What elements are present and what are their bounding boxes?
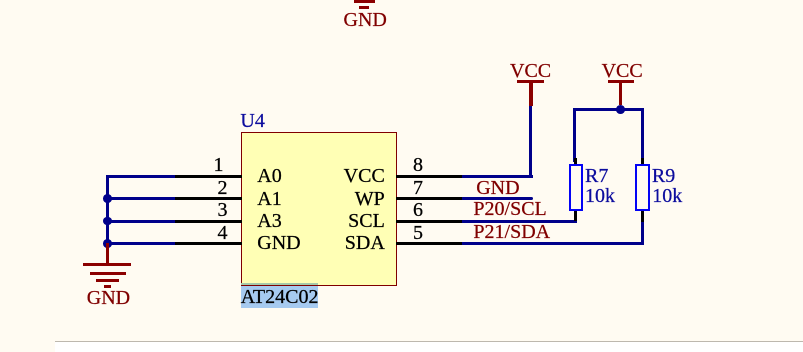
- pin name A1: [257, 189, 281, 209]
- pin 5 line: [396, 242, 464, 245]
- pin 1 line: [174, 175, 242, 178]
- pin number 7: [412, 178, 425, 198]
- pin 3 (A3): [0, 0, 1, 1]
- wire pin4 row: [106, 242, 175, 245]
- resistor R9: [0, 0, 1, 1]
- net label P20/SCL: [473, 199, 546, 219]
- pin 1 (A0): [0, 0, 1, 1]
- pin 7 (WP): [0, 0, 1, 1]
- junction at pin4 / ground: [103, 239, 112, 248]
- pin number 4: [216, 223, 229, 243]
- net label GND: [476, 178, 519, 198]
- pin 2 line: [174, 197, 242, 200]
- pin 7 line: [396, 197, 464, 200]
- pin 8 line: [396, 175, 464, 178]
- power port VCC (left): [0, 0, 1, 1]
- resistor R7: [0, 0, 1, 1]
- wire VCC riser: [529, 106, 532, 178]
- value label AT24C02 (selected): [0, 0, 1, 1]
- designator U4: [240, 111, 264, 131]
- pin 2 (A1): [0, 0, 1, 1]
- wire rail to R9: [641, 108, 644, 162]
- sheet border bottom: [55, 341, 803, 342]
- pin name SDA: [343, 233, 385, 253]
- pin name SCL: [343, 211, 385, 231]
- power port GND (top, clipped): [0, 0, 1, 1]
- net label P21/SDA: [473, 222, 550, 242]
- pin name GND: [257, 233, 300, 253]
- label VCC: [510, 61, 551, 81]
- wire left vertical bus: [106, 175, 109, 245]
- label VCC: [602, 61, 643, 81]
- label GND: [87, 288, 130, 308]
- designator R9: [652, 166, 675, 186]
- wire pin3 row: [106, 220, 175, 223]
- pin name VCC: [343, 166, 385, 186]
- wire pin6 to R7: [462, 220, 577, 223]
- pin number 8: [412, 155, 425, 175]
- wire rail to R7: [573, 108, 576, 162]
- wire pin5 to R9: [462, 242, 644, 245]
- pin number 1: [212, 155, 225, 175]
- power port VCC (right): [0, 0, 1, 1]
- wire pin2 row: [106, 197, 175, 200]
- designator R7: [585, 166, 608, 186]
- pin name WP: [343, 189, 385, 209]
- label GND: [344, 10, 387, 30]
- pin number 6: [412, 200, 425, 220]
- pin 8 (VCC): [0, 0, 1, 1]
- ground symbol GND (left): [0, 0, 1, 1]
- value 10k (R7): [585, 186, 615, 206]
- pin 6 (SCL): [0, 0, 1, 1]
- junction at pin2: [103, 194, 112, 203]
- pin 3 line: [174, 220, 242, 223]
- pin 4 line: [174, 242, 242, 245]
- junction VCC rail: [616, 105, 625, 114]
- pin name A0: [257, 166, 281, 186]
- pin 5 (SDA): [0, 0, 1, 1]
- wire VCC rail: [573, 108, 644, 111]
- IC U4 body: [241, 132, 397, 286]
- junction at pin3: [103, 217, 112, 226]
- wire R9 bottom to SDA: [641, 222, 644, 245]
- pin 4 (GND): [0, 0, 1, 1]
- pin number 5: [412, 223, 425, 243]
- wire pin8 to VCC: [462, 175, 533, 178]
- pin number 3: [216, 200, 229, 220]
- wire pin1 row: [106, 175, 175, 178]
- pin name A3: [257, 211, 281, 231]
- pin 6 line: [396, 220, 464, 223]
- pin number 2: [216, 178, 229, 198]
- value 10k (R9): [652, 186, 682, 206]
- wire pin7 stub: [462, 197, 533, 200]
